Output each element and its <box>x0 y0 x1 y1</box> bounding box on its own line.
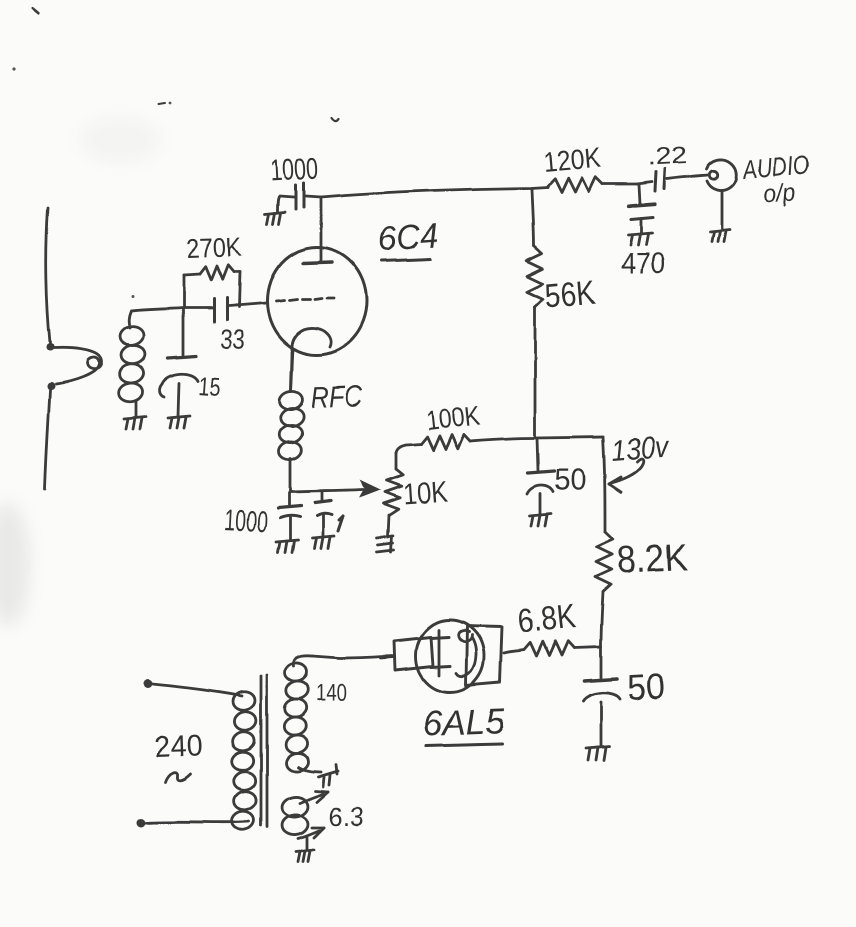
ground (C50 reservoir) <box>586 746 610 760</box>
svg-text:470: 470 <box>621 248 665 280</box>
capacitor 1 <box>315 493 332 536</box>
label RFC <box>310 380 363 415</box>
svg-text:.22: .22 <box>647 142 688 171</box>
wire wiper (regen control) <box>290 480 381 498</box>
wire 130v rail <box>603 437 605 532</box>
label 10K <box>402 476 449 511</box>
ground (C1) <box>312 536 334 548</box>
wire grid bus (coil to 33 cap) <box>131 308 212 311</box>
node mains terminal (bottom) <box>137 819 146 828</box>
svg-text:RFC: RFC <box>310 380 363 415</box>
label 50 (reservoir) <box>626 665 666 708</box>
squiggle under 240 <box>166 772 191 782</box>
tube 6AL5 cathode <box>431 630 450 675</box>
capacitor 1000 (cathode bypass) <box>278 493 301 540</box>
capacitor 50 (reservoir) <box>583 679 620 745</box>
svg-text:6C4: 6C4 <box>377 217 440 259</box>
wire 56K bottom <box>534 307 537 437</box>
inductor L1 tuning coil <box>117 311 146 417</box>
wire rail (8.2K to 6.8K node) <box>601 592 603 647</box>
paper speck (left) <box>12 67 15 70</box>
tube 6C4 plate + lead <box>303 199 332 263</box>
ground (10K) <box>377 536 394 552</box>
label 6C4 <box>377 217 440 261</box>
node mains terminal (top) <box>144 680 153 689</box>
label 140 <box>316 680 347 707</box>
transformer core <box>261 675 267 827</box>
svg-text:6.3: 6.3 <box>329 802 364 832</box>
paper smudge (upper left) <box>80 118 160 162</box>
ground (L1) <box>124 417 146 429</box>
tube 6C4 cathode + lead <box>291 328 331 391</box>
svg-text:6AL5: 6AL5 <box>422 700 506 744</box>
label 6.3 <box>329 802 364 832</box>
inductor RFC <box>277 352 305 492</box>
tube 6AL5 anode box (left) <box>394 637 433 670</box>
chassis mark (secondary return) <box>318 764 338 787</box>
ground (heater winding) <box>296 850 314 862</box>
resistor 6.8K <box>504 641 601 656</box>
transformer primary 240 <box>231 690 258 831</box>
wire mains (bottom) <box>146 822 249 823</box>
svg-text:100K: 100K <box>424 400 481 435</box>
svg-text:120K: 120K <box>542 142 603 178</box>
tube 6C4 envelope <box>267 247 367 355</box>
wire antenna lead (top) <box>46 208 50 343</box>
capacitor 15 (grid tuning) <box>160 310 198 416</box>
ground (jack) <box>710 230 730 242</box>
label 56K <box>543 274 596 316</box>
potentiometer 10K <box>384 453 404 537</box>
capacitor 33 (grid) <box>214 298 266 322</box>
resistor 8.2K <box>596 532 613 592</box>
label 6.8K <box>516 597 578 641</box>
ground (C50 mid) <box>529 514 551 526</box>
resistor 120K <box>548 177 637 192</box>
transformer heater winding 6.3 <box>281 796 309 837</box>
svg-text:140: 140 <box>316 680 347 707</box>
svg-text:1000: 1000 <box>224 504 269 539</box>
svg-text:o/p: o/p <box>762 178 796 209</box>
paper smudge (left edge) <box>0 503 30 627</box>
svg-text:6.8K: 6.8K <box>516 597 578 641</box>
svg-text:10K: 10K <box>402 476 449 511</box>
tube 6AL5 envelope <box>416 620 484 692</box>
wire mains (top) <box>152 684 242 696</box>
paper speck (top left) <box>33 8 39 13</box>
label 240 <box>154 729 203 764</box>
wire plate rail <box>306 187 548 197</box>
ground (C470) <box>628 233 652 245</box>
label 100K <box>424 400 481 435</box>
wire rail (node to C50) <box>600 647 603 678</box>
label 120K <box>542 142 603 178</box>
tube 6C4 grid (dashed) <box>276 298 334 301</box>
svg-text:240: 240 <box>154 729 203 764</box>
node antenna terminal (bottom) <box>47 382 55 390</box>
label 50 (decoupling) <box>554 462 586 497</box>
paper speck (upper) <box>158 102 171 105</box>
capacitor 50 (decoupling) <box>527 438 554 514</box>
transformer secondary 140 <box>283 656 321 773</box>
wire HT secondary to 6AL5 <box>312 656 392 658</box>
ground (C1000 top) <box>265 212 285 224</box>
label 6AL5 <box>422 700 506 746</box>
label o/p <box>762 178 796 209</box>
wire 6AL5 input <box>380 657 394 658</box>
node antenna terminal (top) <box>46 343 54 351</box>
wire heater to ground <box>306 838 309 850</box>
capacitor .22 (output coupling) <box>637 169 708 191</box>
tube 6AL5 plate curl <box>456 631 476 677</box>
resistor 100K <box>396 434 470 453</box>
svg-text:8.2K: 8.2K <box>616 536 688 582</box>
svg-text:130v: 130v <box>610 431 671 468</box>
capacitor 470 (tone) <box>629 185 655 233</box>
label .22 <box>647 142 688 171</box>
label 270K <box>186 232 242 264</box>
paper mark (above 1000) <box>331 118 338 121</box>
inductor antenna link winding <box>54 348 101 384</box>
label 1 <box>338 516 343 531</box>
svg-text:270K: 270K <box>186 232 242 264</box>
tube 6AL5 anode box (right) <box>466 626 502 685</box>
svg-text:50: 50 <box>626 665 666 708</box>
label AUDIO <box>740 149 810 185</box>
paper dot (near 270K) <box>132 295 135 298</box>
annotation arrow 130v <box>609 459 643 492</box>
capacitor 1000 (plate bypass) <box>278 183 304 212</box>
label 1000 (top) <box>270 153 320 188</box>
arrow heater tap (bottom) <box>298 828 324 839</box>
label 8.2K <box>616 536 688 582</box>
ground (C1000 bottom) <box>276 540 298 552</box>
wire antenna lead (bottom) <box>45 390 50 489</box>
jack AUDIO O/P <box>707 160 737 230</box>
ground (C 15) <box>168 416 190 428</box>
svg-text:33: 33 <box>220 324 246 355</box>
arrow heater tap (top) <box>300 791 328 803</box>
svg-text:56K: 56K <box>543 274 596 316</box>
svg-text:50: 50 <box>554 462 586 497</box>
svg-text:1000: 1000 <box>270 153 320 188</box>
label 33 <box>220 324 246 355</box>
wire B+ bus <box>470 437 603 441</box>
resistor 270K grid leak <box>184 265 240 308</box>
svg-text:15: 15 <box>198 371 222 402</box>
label 130v <box>610 431 671 468</box>
wire 56K top <box>532 189 534 246</box>
label 470 <box>621 248 665 280</box>
label 1000 (bottom) <box>224 504 269 539</box>
label 15 <box>198 371 222 402</box>
resistor 56K <box>526 246 543 307</box>
